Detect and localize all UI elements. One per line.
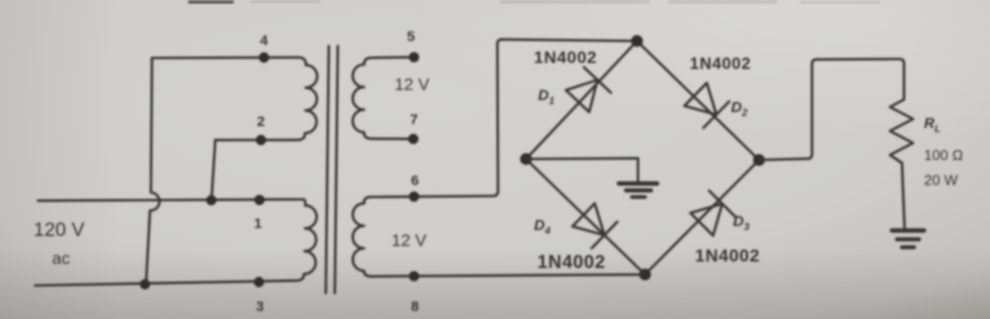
svg-text:12 V: 12 V bbox=[392, 231, 428, 250]
bridge vertex dot bottom bbox=[639, 269, 651, 281]
diode D3 bbox=[689, 191, 736, 238]
svg-text:ac: ac bbox=[52, 249, 70, 268]
junction dot on top input wire (x=211) bbox=[206, 195, 216, 205]
bridge arm bottom-left (D4) bbox=[526, 159, 645, 275]
pin 5 dot bbox=[409, 52, 419, 62]
bridge arm bottom-right (D3) bbox=[645, 160, 759, 275]
svg-text:7: 7 bbox=[410, 112, 418, 128]
terminal 3 dot bbox=[254, 277, 264, 287]
secondary winding S2 coil bbox=[353, 203, 371, 276]
svg-text:120 V: 120 V bbox=[34, 219, 85, 241]
primary winding L2 (lower) coil bbox=[304, 206, 317, 275]
bridge vertex dot top bbox=[631, 35, 643, 47]
bridge vertex dot left bbox=[520, 153, 532, 165]
diode D2 bbox=[683, 81, 730, 128]
junction dot on bottom input wire (x=145) bbox=[140, 279, 150, 289]
top edge smudge bbox=[188, 0, 234, 4]
wire: 120V top input line to lower primary top bbox=[38, 199, 306, 205]
svg-text:1N4002: 1N4002 bbox=[534, 48, 597, 67]
svg-text:5: 5 bbox=[407, 29, 415, 45]
terminal 4 dot bbox=[259, 52, 269, 62]
wire: 120V bottom input line / lower primary bottom bbox=[35, 274, 304, 286]
transformer core line 1 bbox=[326, 46, 329, 293]
wire: pin 6 line to riser bbox=[370, 191, 498, 197]
diode D4 bbox=[571, 202, 618, 249]
svg-text:2: 2 bbox=[257, 114, 265, 130]
pin 8 dot bbox=[409, 271, 419, 281]
wire: left vertex to center ground bbox=[526, 158, 638, 182]
svg-text:100 Ω: 100 Ω bbox=[924, 148, 963, 164]
svg-text:4: 4 bbox=[260, 33, 268, 49]
wire: vertical from pin4 line, hop over top input, to bottom input bbox=[146, 58, 159, 284]
terminal 1 dot bbox=[254, 195, 264, 205]
wire: riser up from pin 6 line bbox=[497, 39, 502, 191]
resistor RL zigzag bbox=[890, 100, 913, 164]
diode D1 bbox=[564, 67, 611, 113]
svg-text:1N4002: 1N4002 bbox=[537, 251, 605, 272]
wire: secondary S2 bottom lead through pin 8 to bridge bottom vertex bbox=[371, 275, 645, 277]
faint ghost print at top edge bbox=[250, 0, 880, 4]
svg-text:20 W: 20 W bbox=[924, 173, 958, 189]
svg-text:12 V: 12 V bbox=[395, 75, 431, 94]
bridge ground symbol bbox=[619, 181, 657, 186]
secondary S1 bottom lead to pin 7 bbox=[371, 137, 413, 140]
secondary S2 (lower 12V) top lead, pin 6, up to bridge top bbox=[364, 197, 370, 203]
load ground symbol bbox=[892, 228, 924, 233]
wire: right vertex to load bbox=[759, 59, 904, 160]
pin 6 dot bbox=[409, 191, 419, 201]
wire: terminal 2 line bbox=[215, 139, 298, 142]
svg-text:8: 8 bbox=[411, 299, 419, 315]
svg-text:1N4002: 1N4002 bbox=[690, 55, 751, 73]
svg-text:1: 1 bbox=[254, 216, 262, 232]
pin 7 dot bbox=[408, 134, 418, 144]
wire: terminal 4 top line bbox=[152, 57, 306, 65]
terminal 2 dot bbox=[256, 135, 266, 145]
wire: top feed to bridge top vertex bbox=[502, 39, 637, 41]
svg-text:3: 3 bbox=[256, 299, 264, 315]
primary winding L1 (upper) coil bbox=[298, 65, 317, 140]
secondary S1 (upper 12V) top lead to pin 5 bbox=[364, 57, 414, 64]
secondary winding S1 coil bbox=[353, 65, 371, 139]
transformer core line 2 bbox=[335, 46, 338, 293]
bridge arm top-left (D1) bbox=[526, 41, 637, 159]
wire: vertical from pin2 line to top input wire bbox=[212, 140, 216, 200]
bridge vertex dot right bbox=[753, 154, 765, 166]
svg-text:6: 6 bbox=[411, 173, 419, 189]
wire: resistor bottom lead bbox=[902, 163, 905, 228]
svg-text:1N4002: 1N4002 bbox=[695, 246, 760, 266]
bridge arm top-right (D2) bbox=[637, 41, 759, 160]
